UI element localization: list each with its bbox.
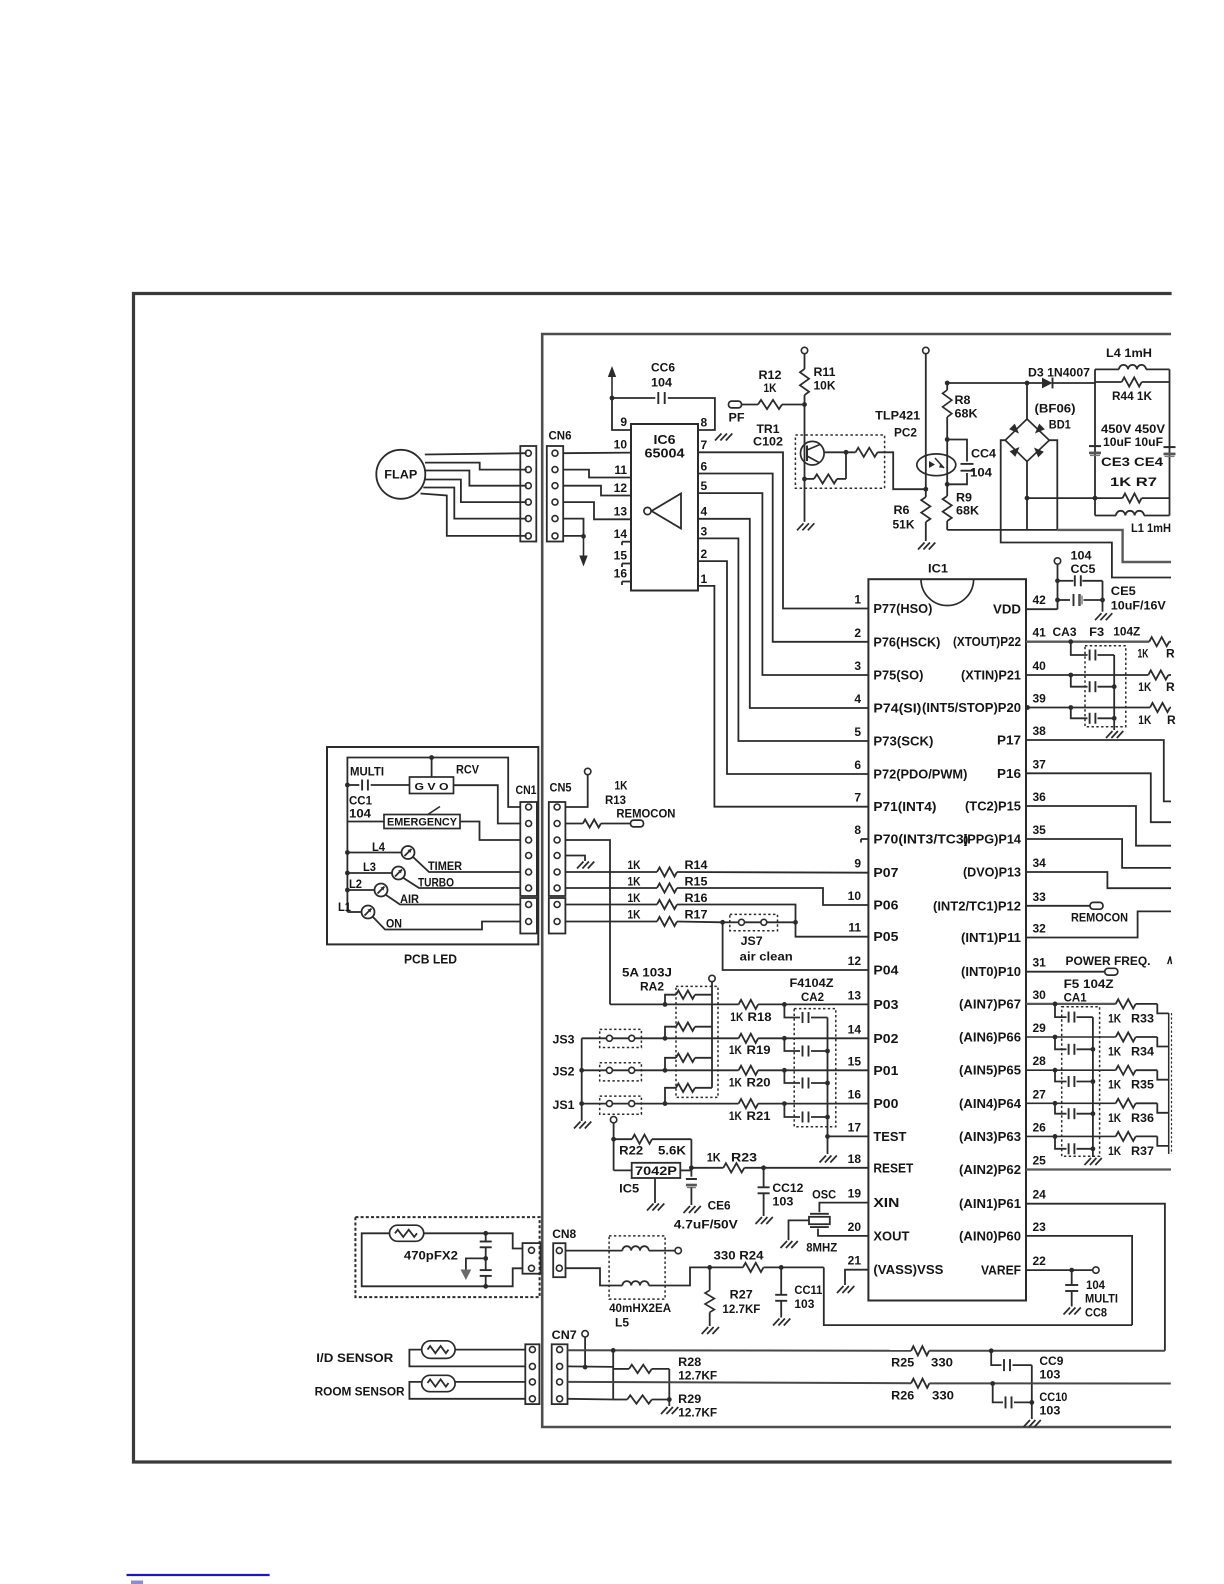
wire R11 down through TR1 to ground	[804, 405, 806, 522]
wire L4 to TIMER row	[413, 857, 520, 872]
svg-text:(INT1)P11: (INT1)P11	[961, 931, 1021, 945]
svg-text:CC11: CC11	[794, 1283, 822, 1297]
svg-text:8: 8	[854, 823, 861, 837]
capacitor CE5 10uF/16V	[1058, 599, 1071, 601]
svg-text:(INT2/TC1)P12: (INT2/TC1)P12	[933, 899, 1021, 913]
terminal REMOCON	[631, 820, 644, 827]
svg-text:R17: R17	[685, 908, 708, 922]
row P03 wire	[610, 1003, 739, 1005]
diode D3 1N4007	[1042, 378, 1053, 389]
wire pin34 staircase	[1026, 872, 1171, 888]
capacitor CE4 450V 10uF	[1164, 446, 1176, 448]
wire bridge AC left	[1001, 440, 1171, 577]
resistor R33 1K	[1116, 999, 1136, 1008]
connector CN5	[549, 802, 566, 896]
svg-text:12.7KF: 12.7KF	[678, 1406, 717, 1420]
resistor R44 1K	[1095, 381, 1122, 383]
junction	[483, 1231, 488, 1236]
ground CE5	[1095, 613, 1102, 620]
svg-text:IC6: IC6	[654, 433, 676, 447]
svg-text:RCV: RCV	[456, 765, 479, 777]
reset IC5 7042P box	[614, 1169, 632, 1171]
capacitor CE6 4.7uF/50V	[686, 1178, 697, 1180]
svg-text:(AIN7)P67: (AIN7)P67	[959, 997, 1021, 1011]
transistor TR1 dashed box	[795, 435, 884, 488]
junction	[1025, 381, 1030, 386]
svg-text:12: 12	[614, 481, 628, 495]
wire crystal to ground	[789, 1220, 810, 1240]
svg-text:R26: R26	[891, 1389, 914, 1403]
capacitor CC4	[947, 440, 967, 462]
svg-text:CC5: CC5	[1071, 562, 1096, 576]
svg-text:F3: F3	[1089, 625, 1104, 639]
svg-text:JS1: JS1	[553, 1098, 575, 1112]
L-filter box verticals	[1094, 369, 1096, 515]
wire pin33 to REMOCON terminal	[1026, 905, 1090, 907]
svg-text:(INT0)P10: (INT0)P10	[961, 965, 1021, 979]
svg-text:1: 1	[701, 572, 708, 586]
svg-text:15: 15	[614, 549, 628, 563]
ground F3	[1106, 731, 1113, 738]
resistor R34 1K	[1116, 1032, 1136, 1041]
wire 470p bottom to connector	[486, 1268, 523, 1286]
inductor L5 bottom	[566, 1268, 623, 1285]
junction	[1093, 496, 1098, 501]
svg-text:103: 103	[794, 1297, 814, 1311]
svg-text:JS7: JS7	[741, 934, 763, 948]
svg-text:103: 103	[772, 1195, 793, 1209]
svg-text:TEST: TEST	[873, 1130, 906, 1144]
svg-text:10: 10	[848, 889, 862, 903]
junction	[779, 1265, 784, 1270]
capacitor CA1 element 5	[1055, 1136, 1067, 1148]
wire 7042P right	[680, 1169, 691, 1171]
svg-text:7: 7	[701, 438, 708, 452]
ground under R6	[918, 543, 925, 550]
svg-text:330 R24: 330 R24	[714, 1249, 764, 1263]
resistor R8 68K	[946, 383, 948, 390]
svg-text:(AIN6)P66: (AIN6)P66	[959, 1031, 1021, 1045]
wire pin row 29	[1026, 1036, 1116, 1038]
resistor RA2-1	[665, 995, 676, 1005]
junction	[663, 1101, 668, 1106]
wire CN6-5 to ground arrow	[563, 519, 583, 537]
capacitor CC5 104	[1058, 580, 1074, 582]
svg-text:(TC2)P15: (TC2)P15	[965, 800, 1021, 814]
wire terminal down	[584, 1337, 586, 1367]
svg-text:23: 23	[1033, 1220, 1047, 1234]
junction	[782, 1002, 787, 1007]
capacitor CA2 element	[784, 1038, 800, 1051]
svg-text:4: 4	[701, 505, 708, 519]
wire FLAP to CN6-5	[423, 488, 526, 519]
svg-text:(AIN0)P60: (AIN0)P60	[959, 1229, 1021, 1243]
wire pin row 30	[1026, 1003, 1116, 1005]
svg-text:CN6: CN6	[549, 429, 572, 443]
svg-text:8: 8	[701, 416, 708, 430]
svg-text:9: 9	[620, 415, 627, 429]
junction	[345, 888, 350, 893]
wire resistor hook to dashed bus	[1157, 1136, 1168, 1146]
svg-text:10K: 10K	[814, 379, 836, 393]
wire pin row 28	[1026, 1069, 1116, 1071]
svg-text:1K: 1K	[707, 1151, 721, 1165]
svg-text:CC4: CC4	[971, 447, 996, 461]
optocoupler PC2	[917, 454, 956, 476]
ground crystal	[781, 1241, 788, 1248]
wire IC6 pin9	[612, 398, 631, 430]
svg-text:CE5: CE5	[1111, 584, 1136, 598]
ground CA1	[1085, 1158, 1092, 1165]
wire CA2 to IC1 TEST pin17	[828, 1135, 869, 1137]
wire to PC2 input	[878, 452, 926, 489]
wire JS3 row	[582, 1037, 607, 1039]
junction	[945, 381, 950, 386]
svg-text:(AIN4)P64: (AIN4)P64	[959, 1097, 1021, 1111]
junction	[923, 487, 928, 492]
svg-text:18: 18	[848, 1152, 862, 1166]
junction	[1068, 705, 1073, 710]
junction	[611, 1137, 616, 1142]
svg-text:1K: 1K	[615, 779, 628, 793]
resistor array RA2 dashed box	[676, 986, 718, 1097]
wire VDD pin42	[1026, 608, 1058, 610]
wire CN7-1 long row to pin24 rail	[568, 1349, 912, 1352]
wire PF to R12	[742, 404, 759, 406]
inductor L5 top	[566, 1250, 623, 1252]
terminal RA2 top	[709, 975, 715, 981]
jumper JS3	[600, 1029, 642, 1047]
inductor L4 1mH	[1095, 368, 1119, 370]
capacitor F3 element	[1071, 675, 1088, 687]
svg-text:2: 2	[854, 626, 861, 640]
svg-text:P01: P01	[873, 1064, 898, 1078]
ground R27	[702, 1327, 709, 1334]
svg-text:1K: 1K	[1108, 1078, 1121, 1092]
PCB LED box	[327, 747, 538, 944]
svg-text:P07: P07	[873, 866, 898, 880]
wire IC6 pin1 to IC1 pin7	[698, 586, 868, 807]
svg-text:air clean: air clean	[740, 952, 793, 964]
wire pin36 staircase	[1026, 806, 1171, 846]
svg-text:XOUT: XOUT	[873, 1229, 909, 1243]
svg-text:5: 5	[854, 725, 861, 739]
wire PCB LED top rail	[347, 758, 520, 808]
filter 470pFX2 dashed box	[355, 1217, 539, 1297]
svg-text:CA3: CA3	[1053, 625, 1077, 639]
svg-text:17: 17	[848, 1120, 862, 1134]
wire CE5 down to ground	[1102, 581, 1104, 612]
wire CC9/CC10 common	[1031, 1365, 1033, 1419]
svg-text:OSC: OSC	[812, 1188, 836, 1202]
junction	[483, 1256, 488, 1261]
svg-text:F5 104Z: F5 104Z	[1064, 977, 1114, 991]
junction	[1068, 673, 1073, 678]
svg-text:P76(HSCK): P76(HSCK)	[873, 635, 940, 649]
crystal OSC 8MHZ	[810, 1213, 829, 1215]
svg-text:65004: 65004	[645, 447, 685, 461]
resistor R21 1K	[665, 1103, 739, 1105]
svg-text:39: 39	[1033, 692, 1047, 706]
junction	[989, 1348, 994, 1353]
svg-text:3: 3	[701, 525, 708, 539]
wire L5 bottom out to R24 row	[649, 1267, 710, 1285]
svg-text:12.7KF: 12.7KF	[678, 1369, 717, 1383]
FLAP motor M1	[376, 450, 425, 499]
junction	[345, 871, 350, 876]
svg-text:3: 3	[854, 659, 861, 673]
ground CA2	[820, 1156, 827, 1163]
svg-text:P17: P17	[997, 734, 1021, 748]
svg-text:14: 14	[614, 527, 628, 541]
svg-text:4: 4	[854, 692, 861, 706]
wire CN6-4 to IC6 pin13	[563, 502, 631, 519]
terminal CC5 top	[1054, 558, 1060, 564]
svg-text:15: 15	[848, 1054, 862, 1068]
resistor R35 1K	[1116, 1066, 1136, 1075]
wire IC6 pin2 to IC1 pin6	[698, 561, 868, 774]
wire FLAP to CN6-1	[425, 453, 527, 454]
wire 7042P to ground	[654, 1178, 656, 1203]
op-amp buffer IC6 65004 box	[631, 424, 698, 591]
capacitor CC9 103	[991, 1351, 1001, 1365]
svg-text:68K: 68K	[956, 504, 979, 518]
capacitor CA2 element	[784, 1104, 800, 1117]
svg-text:REMOCON: REMOCON	[1071, 913, 1128, 925]
terminal above CN7	[582, 1331, 588, 1337]
svg-text:29: 29	[1033, 1021, 1047, 1035]
wire IC6 pin7 to IC1 pin1	[698, 452, 868, 608]
svg-text:1K: 1K	[1108, 1144, 1121, 1158]
svg-text:30: 30	[1033, 988, 1047, 1002]
resistor RA2-3	[665, 1058, 676, 1071]
wire CN5-3 down to RA2	[565, 840, 610, 1004]
svg-text:10uF 10uF: 10uF 10uF	[1103, 435, 1163, 449]
svg-text:R23: R23	[731, 1151, 757, 1165]
svg-text:P05: P05	[873, 930, 898, 944]
wire resistor hook to dashed bus	[1157, 1037, 1168, 1047]
ground CC11	[773, 1319, 780, 1326]
capacitor CE3 450V 10uF	[1089, 445, 1101, 447]
ground arrow	[583, 536, 585, 556]
junction	[1055, 578, 1060, 583]
svg-text:R8: R8	[955, 393, 971, 407]
line filter L5 dashed box	[609, 1236, 665, 1299]
thermistor 470pFX2	[362, 1233, 486, 1286]
svg-text:CN7: CN7	[552, 1328, 577, 1342]
ground CC12	[756, 1217, 763, 1224]
capacitor CC11 103	[780, 1267, 782, 1294]
svg-text:1: 1	[854, 593, 861, 607]
wire FLAP to CN6-6	[421, 494, 527, 536]
junction	[945, 437, 950, 442]
svg-text:1K: 1K	[729, 1109, 742, 1123]
svg-text:D3 1N4007: D3 1N4007	[1028, 366, 1090, 380]
junction	[1055, 598, 1060, 603]
svg-text:P03: P03	[873, 998, 898, 1012]
junction	[663, 1036, 668, 1041]
wire JS2 row	[582, 1069, 607, 1071]
svg-text:27: 27	[1033, 1087, 1047, 1101]
junction	[583, 1365, 588, 1370]
svg-text:1K: 1K	[1108, 1045, 1121, 1059]
svg-text:R11: R11	[814, 365, 836, 379]
wire pin35 staircase	[1026, 839, 1171, 868]
wire pin23 down	[1026, 1236, 1132, 1325]
capacitor 470p lower	[480, 1269, 492, 1271]
svg-text:CA1: CA1	[1064, 991, 1087, 1005]
svg-text:104: 104	[970, 466, 992, 480]
resistor R26 330	[911, 1379, 929, 1388]
junction	[825, 1134, 830, 1139]
capacitor CA2 element	[784, 1070, 800, 1083]
svg-text:PF: PF	[729, 411, 745, 425]
junction	[610, 396, 615, 401]
svg-text:51K: 51K	[893, 518, 915, 532]
svg-text:JS2: JS2	[553, 1065, 575, 1079]
svg-text:P16: P16	[997, 767, 1021, 781]
svg-text:11: 11	[614, 463, 627, 477]
wire base resistor up	[845, 452, 847, 479]
svg-text:R20: R20	[747, 1076, 771, 1090]
junction	[1029, 1400, 1034, 1405]
svg-text:AIR: AIR	[400, 894, 420, 906]
junction	[707, 1265, 712, 1270]
bridge rectifier BD1 (BF06)	[1005, 419, 1049, 462]
svg-text:REMOCON: REMOCON	[616, 809, 675, 821]
svg-text:R: R	[1167, 713, 1176, 727]
IC6 pin stub	[622, 541, 631, 543]
svg-text:40mHX2EA: 40mHX2EA	[609, 1301, 671, 1315]
svg-text:R12: R12	[759, 368, 782, 382]
junction	[579, 1101, 584, 1106]
capacitor CC12 103	[763, 1168, 765, 1187]
ground JS bus	[574, 1122, 581, 1129]
svg-text:P06: P06	[873, 899, 898, 913]
IC6 pin stub	[622, 563, 631, 565]
terminal POWER FREQ	[1105, 968, 1118, 975]
junction	[990, 1381, 995, 1386]
terminal above R11	[801, 347, 807, 353]
svg-text:BD1: BD1	[1049, 418, 1071, 432]
svg-text:CC8: CC8	[1085, 1308, 1108, 1320]
wire JS7 to IC1 pin11	[796, 922, 869, 936]
wire EMERGENCY right to CN1-3	[460, 822, 520, 841]
junction	[345, 850, 350, 855]
svg-text:24: 24	[1033, 1188, 1047, 1202]
svg-text:PCB LED: PCB LED	[404, 953, 457, 967]
svg-text:EMERGENCY: EMERGENCY	[387, 817, 458, 829]
svg-text:(PPG)P14: (PPG)P14	[963, 833, 1021, 847]
wire R16 to JS7 node	[677, 905, 796, 923]
svg-text:36: 36	[1033, 790, 1047, 804]
thermistor ROOM sensor	[409, 1382, 525, 1399]
svg-text:G V O: G V O	[415, 782, 449, 793]
svg-text:2: 2	[701, 547, 708, 561]
resistor R7 1K rung	[1027, 497, 1123, 499]
wire F3 common down	[1113, 655, 1115, 730]
resistor R27 12.7KF	[709, 1267, 711, 1290]
svg-text:RA2: RA2	[640, 980, 664, 994]
IC1 pin 8 stub	[861, 838, 868, 840]
svg-text:22: 22	[1033, 1254, 1047, 1268]
terminal above R22	[610, 1117, 616, 1123]
svg-text:12.7KF: 12.7KF	[722, 1302, 760, 1316]
connector CN7 right half	[552, 1344, 568, 1404]
svg-text:R18: R18	[748, 1010, 772, 1024]
wire pin row 27	[1026, 1102, 1116, 1104]
svg-text:1K: 1K	[628, 908, 641, 922]
svg-text:7042P: 7042P	[635, 1164, 677, 1178]
jumper JS7 air clean	[730, 914, 778, 930]
svg-text:1K: 1K	[1138, 647, 1149, 661]
svg-text:33: 33	[1033, 890, 1047, 904]
wire L2 to AIR row	[386, 895, 520, 905]
svg-text:VDD: VDD	[993, 603, 1021, 617]
svg-text:R34: R34	[1131, 1045, 1154, 1059]
svg-text:R27: R27	[730, 1288, 753, 1302]
svg-text:14: 14	[848, 1022, 862, 1036]
svg-text:470pFX2: 470pFX2	[404, 1249, 458, 1263]
svg-text:104Z: 104Z	[1113, 625, 1140, 639]
terminal L5 out	[675, 1247, 681, 1253]
ground R28/R29	[661, 1407, 668, 1414]
svg-text:(AIN5)P65: (AIN5)P65	[959, 1064, 1021, 1078]
svg-text:104: 104	[1086, 1280, 1106, 1292]
terminal VAREF	[1093, 1267, 1099, 1273]
svg-text:P73(SCK): P73(SCK)	[873, 735, 933, 749]
capacitor CC8 104 MULTI at VAREF	[1026, 1269, 1093, 1271]
capacitor CC6	[657, 392, 659, 404]
wire top rail	[947, 382, 1042, 384]
wire CA1 common down	[1092, 1017, 1094, 1157]
wire CN6-6 to ground arrow	[563, 535, 583, 537]
wire R6 to ground	[925, 489, 927, 497]
wire IC6 pin3 to IC1 pin5	[698, 538, 868, 741]
svg-text:37: 37	[1033, 757, 1047, 771]
svg-text:104: 104	[1071, 549, 1092, 563]
svg-text:CE6: CE6	[708, 1199, 731, 1213]
svg-text:10: 10	[614, 438, 628, 452]
resistor TR1 base	[805, 478, 815, 480]
svg-text:8MHZ: 8MHZ	[806, 1241, 837, 1255]
wire pin row 26	[1026, 1135, 1116, 1137]
wire pin40 row with R 1K	[1026, 674, 1148, 676]
svg-text:ON: ON	[386, 919, 402, 931]
wire AC out stepped upper	[1057, 530, 1171, 562]
svg-text:(AIN2)P62: (AIN2)P62	[959, 1163, 1021, 1177]
svg-text:R15: R15	[685, 875, 708, 889]
blue underline mark	[127, 1574, 270, 1576]
wire bridge bottom to rail	[1026, 462, 1028, 530]
svg-text:R21: R21	[747, 1109, 771, 1123]
junction	[1025, 496, 1030, 501]
ground under 7042P	[647, 1204, 654, 1211]
junction	[1053, 1134, 1058, 1139]
wire pin32 staircase	[1026, 911, 1171, 937]
svg-text:(XTOUT)P22: (XTOUT)P22	[953, 635, 1021, 649]
junction	[802, 402, 807, 407]
junction	[483, 1284, 488, 1289]
svg-text:R28: R28	[678, 1355, 701, 1369]
resistor R24 330	[743, 1263, 764, 1272]
wire R22 right down	[690, 1139, 692, 1177]
inverter symbol inside IC6	[652, 494, 682, 529]
junction	[663, 1002, 668, 1007]
junction	[720, 920, 725, 925]
svg-text:CC12: CC12	[772, 1181, 803, 1195]
terminal above R13	[585, 768, 591, 774]
